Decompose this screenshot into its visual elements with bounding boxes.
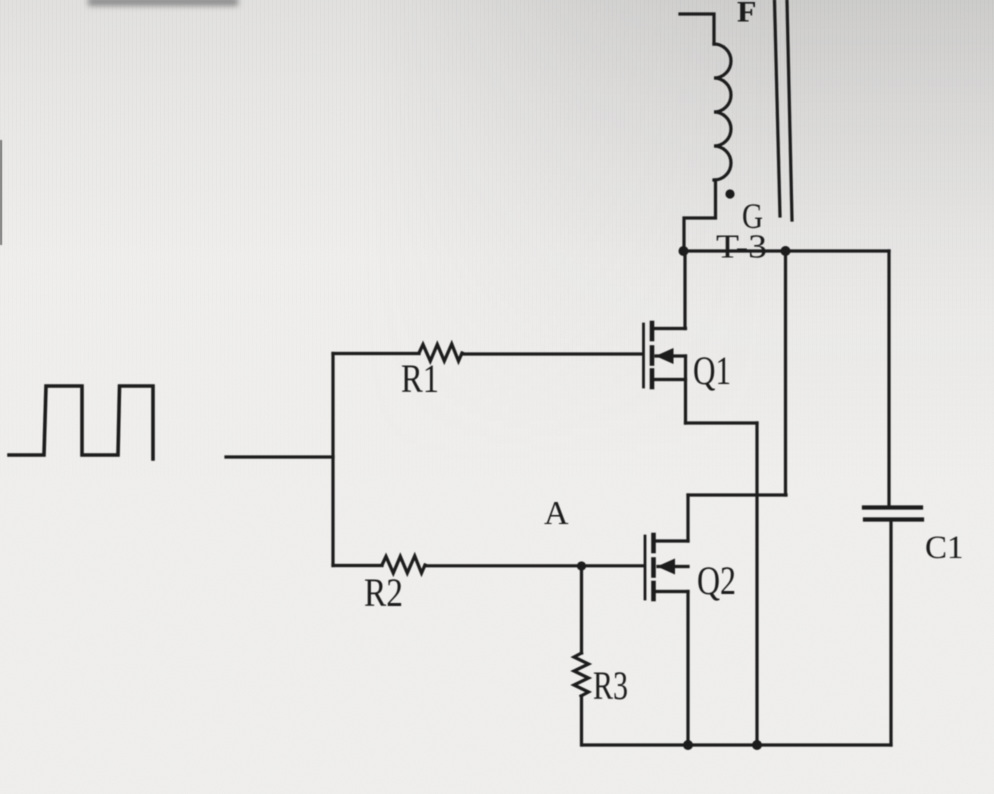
svg-text:C1: C1 — [925, 530, 964, 566]
svg-text:F: F — [737, 0, 757, 29]
wire R1 to Q1 gate — [462, 352, 642, 355]
resistor R3 — [574, 653, 589, 696]
svg-text:R1: R1 — [401, 356, 439, 401]
Q1 gate bar — [642, 324, 645, 387]
wire top rail — [683, 249, 889, 252]
pulse waveform input signal — [9, 386, 153, 459]
svg-text:Q2: Q2 — [697, 558, 736, 603]
wire Q1 source horizontal — [686, 421, 758, 424]
Q1 body arrow — [656, 348, 674, 364]
svg-text:R3: R3 — [593, 663, 628, 708]
wire C1 top lead — [887, 251, 890, 507]
wire branch vertical — [331, 354, 334, 566]
Q1 drain stub — [653, 327, 686, 330]
wire Q2 source to bottom rail — [686, 592, 689, 746]
Q2 drain stub — [655, 539, 688, 542]
Q1 channel segment top — [650, 323, 655, 339]
junction dot rail left — [679, 246, 689, 256]
Q2 body arrow — [657, 559, 675, 575]
transistor Q1 — [644, 323, 686, 387]
capacitor C1 — [864, 508, 922, 520]
wire R3 bottom lead — [580, 696, 583, 745]
Q2 channel segment middle — [651, 560, 656, 576]
transformer core line left — [775, 1, 781, 216]
junction node A dot — [577, 561, 586, 570]
svg-text:Q1: Q1 — [693, 348, 731, 393]
wire R2 to Q2 gate — [425, 564, 644, 567]
wire Q1 source to bottom rail vertical — [755, 423, 758, 745]
wire input horizontal — [226, 455, 333, 458]
resistor R1 — [419, 344, 462, 361]
svg-text:T-3: T-3 — [716, 229, 767, 266]
resistor R2 — [382, 556, 425, 573]
transformer core line right — [787, 1, 792, 220]
Q1 channel segment bottom — [650, 371, 655, 388]
wire R3 top lead — [580, 566, 583, 653]
wire bottom rail — [582, 743, 891, 746]
inductor T-3 coil bottom lead — [684, 180, 716, 251]
Q2 body stub — [658, 565, 688, 568]
Q1 body stub — [656, 354, 686, 357]
C1 top plate — [864, 505, 921, 509]
wire Q1 source down — [684, 356, 687, 423]
wire R1 gate branch left — [333, 352, 419, 355]
transistor Q2 — [645, 535, 688, 599]
wire Q2 drain up to mid node — [686, 495, 689, 541]
junction dot bottom left — [683, 740, 693, 750]
junction dot rail right — [781, 246, 791, 256]
wire mid node horizontal — [688, 493, 786, 496]
inductor T-3 coil windings — [714, 44, 731, 180]
svg-text:A: A — [544, 495, 569, 532]
Q2 source stub — [655, 590, 688, 593]
wire C1 bottom lead — [889, 520, 892, 745]
wire R2 gate branch left — [333, 564, 382, 567]
Q2 channel segment top — [651, 535, 656, 551]
Q2 gate bar — [644, 536, 647, 599]
inductor T-3 primary coil top lead — [680, 14, 714, 44]
Q1 source stub — [653, 378, 686, 381]
C1 bottom plate — [865, 517, 922, 521]
Q2 channel segment bottom — [651, 583, 656, 599]
svg-text:R2: R2 — [364, 570, 403, 615]
junction dot bottom right — [752, 740, 762, 750]
wire rail to mid node vertical — [784, 251, 787, 495]
wire Q1 drain to top rail — [683, 251, 686, 329]
Q1 channel segment middle — [650, 348, 655, 364]
phase dot — [725, 189, 734, 198]
